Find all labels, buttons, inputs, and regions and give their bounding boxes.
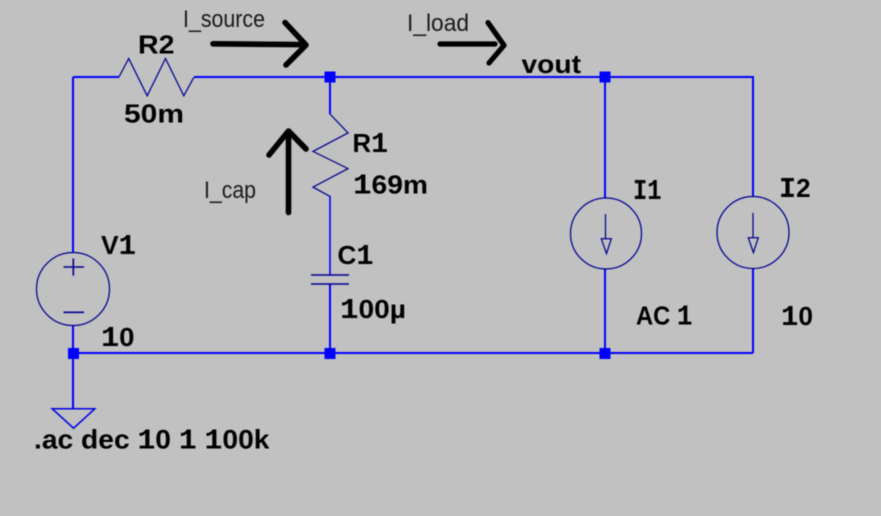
svg-text:vout: vout — [522, 49, 582, 79]
annotation text I_source — [183, 6, 265, 33]
wire V1 minus to bottom junction — [72, 325, 74, 353]
wire vout junction down to I1 top — [604, 77, 606, 198]
svg-text:V1: V1 — [101, 230, 136, 263]
annotation arrow I_source — [213, 23, 306, 66]
capacitor C1 — [311, 275, 349, 284]
annotation text I_load — [407, 10, 469, 37]
wire R2 to node vout-left junction — [194, 76, 330, 78]
wire R1 bottom to C1 top plate — [329, 196, 331, 275]
resistor R1 — [313, 114, 348, 196]
current source I1 — [571, 198, 642, 269]
svg-text:169m: 169m — [353, 170, 428, 203]
current source I2 — [717, 197, 789, 269]
current source I2 value 10 — [781, 301, 813, 334]
node junction square bottom-left — [68, 348, 79, 359]
annotation arrow I_cap — [269, 131, 306, 213]
wire bottom rail — [73, 352, 753, 354]
wire I2 bottom to rail — [752, 269, 754, 353]
current source I1 label — [633, 175, 662, 208]
svg-text:I2: I2 — [779, 173, 811, 206]
wire C1 bottom plate to bottom junction — [329, 284, 331, 353]
wire junction down to R1 top — [329, 77, 331, 114]
capacitor C1 label — [338, 240, 374, 273]
svg-text:I_load: I_load — [407, 10, 469, 37]
svg-text:.ac dec 10 1 100k: .ac dec 10 1 100k — [34, 425, 271, 458]
wire left rail vertical (top corner to V1 plus) — [72, 77, 74, 253]
spice directive .ac dec 10 1 100k — [34, 425, 271, 458]
ground — [52, 409, 95, 429]
wire vout junction to right corner and down to I2 — [605, 77, 753, 197]
resistor R2 value 50m — [124, 99, 184, 129]
current source I1 value AC 1 — [636, 301, 693, 334]
wire top-left horizontal (left rail to R2) — [73, 76, 119, 78]
node junction square top at R1 — [325, 72, 336, 83]
svg-text:10: 10 — [781, 301, 813, 334]
svg-text:R1: R1 — [353, 128, 389, 161]
svg-text:I_cap: I_cap — [204, 177, 256, 204]
node label vout — [522, 49, 582, 79]
svg-text:AC 1: AC 1 — [636, 301, 693, 334]
wire ground stub — [72, 353, 74, 408]
voltage source V1 label — [101, 230, 136, 263]
resistor R1 label — [353, 128, 389, 161]
capacitor C1 value 100u — [340, 294, 406, 327]
current source I2 label — [779, 173, 811, 206]
node junction square bottom-middle — [325, 348, 336, 359]
svg-text:R2: R2 — [138, 30, 175, 60]
svg-text:50m: 50m — [124, 99, 184, 129]
node junction square vout — [600, 72, 611, 83]
node junction square bottom at I1 — [600, 348, 611, 359]
svg-text:100µ: 100µ — [340, 294, 406, 327]
svg-text:I_source: I_source — [183, 6, 265, 33]
resistor R2 label — [138, 30, 175, 60]
voltage source V1 value 10 — [101, 322, 135, 355]
svg-text:I1: I1 — [633, 175, 662, 208]
wire I1 bottom to rail — [604, 269, 606, 353]
voltage source V1 — [37, 253, 110, 326]
annotation arrow I_load — [440, 23, 504, 63]
svg-text:C1: C1 — [338, 240, 374, 273]
annotation text I_cap — [204, 177, 256, 204]
resistor R2 — [119, 59, 194, 96]
resistor R1 value 169m — [353, 170, 428, 203]
svg-text:10: 10 — [101, 322, 135, 355]
wire junction to vout junction — [330, 76, 605, 78]
